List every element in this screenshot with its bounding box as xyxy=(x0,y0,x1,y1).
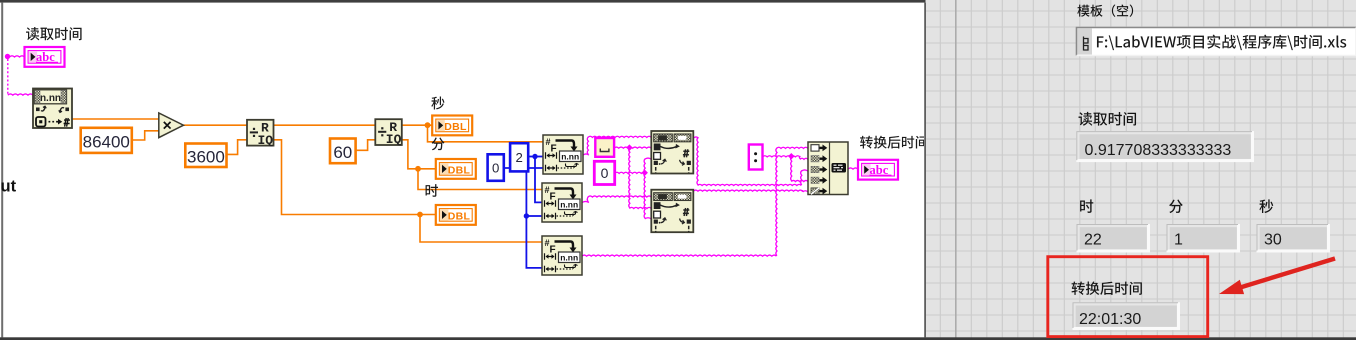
svg-text:0.917708333333333: 0.917708333333333 xyxy=(1085,142,1232,159)
svg-text:0: 0 xyxy=(601,165,609,181)
svg-text:n.nn: n.nn xyxy=(560,252,578,262)
svg-text:0: 0 xyxy=(492,160,499,175)
svg-text:IQ: IQ xyxy=(258,133,274,148)
svg-text:n.nn: n.nn xyxy=(561,151,579,161)
svg-text:F: F xyxy=(550,245,556,256)
svg-text:30: 30 xyxy=(1264,232,1282,249)
svg-text:F: F xyxy=(551,144,557,155)
svg-text:3600: 3600 xyxy=(187,148,225,167)
svg-text:n.nn: n.nn xyxy=(40,93,61,104)
svg-text:DBL: DBL xyxy=(444,121,467,133)
svg-text:86400: 86400 xyxy=(83,133,130,152)
svg-text:DBL: DBL xyxy=(448,210,471,222)
svg-text:2: 2 xyxy=(515,150,522,165)
svg-text:22: 22 xyxy=(1084,232,1102,249)
svg-text:DBL: DBL xyxy=(448,164,471,176)
svg-text:F: F xyxy=(550,192,556,203)
svg-text:×: × xyxy=(163,118,172,135)
svg-text:60: 60 xyxy=(333,143,352,162)
svg-text:22:01:30: 22:01:30 xyxy=(1079,311,1141,328)
svg-text:IQ: IQ xyxy=(386,132,402,147)
svg-text:ut: ut xyxy=(1,177,17,195)
svg-text:1: 1 xyxy=(1174,232,1183,249)
svg-text:n.nn: n.nn xyxy=(560,199,578,209)
